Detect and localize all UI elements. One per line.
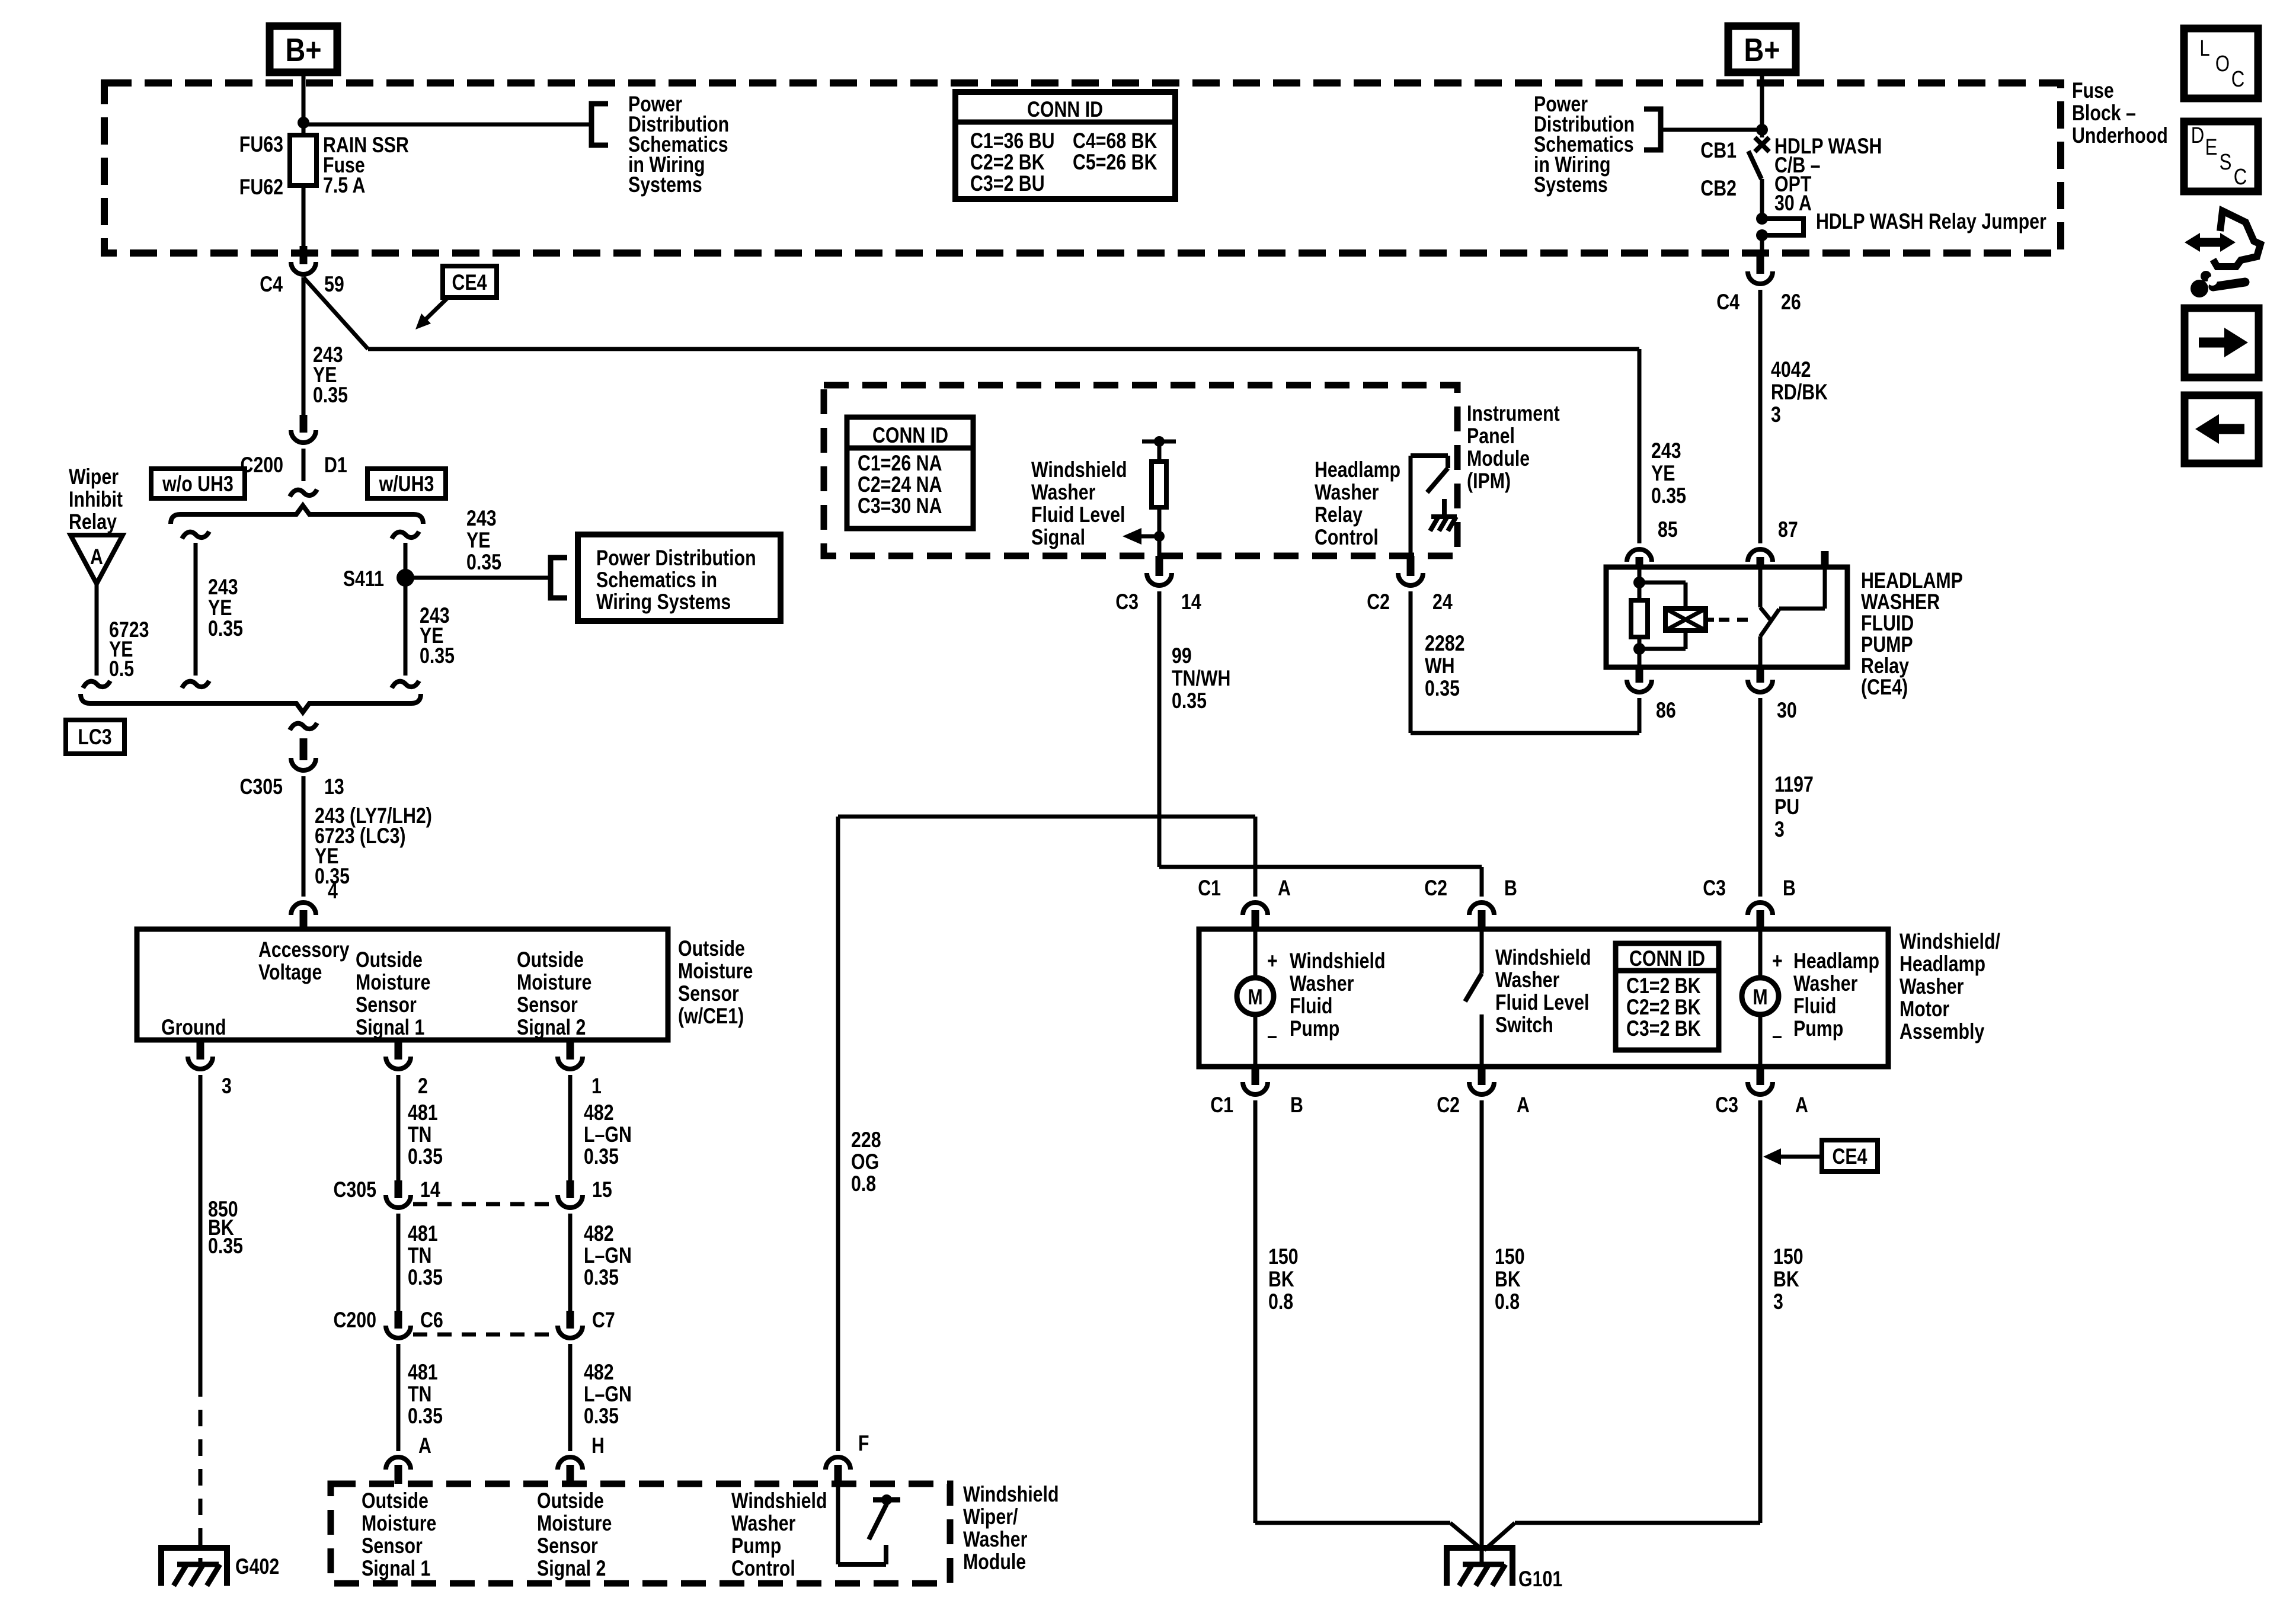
svg-text:7.5 A: 7.5 A xyxy=(323,173,365,198)
svg-text:Fluid Level: Fluid Level xyxy=(1031,502,1125,527)
svg-text:3: 3 xyxy=(1773,1289,1783,1314)
side icon back arrow box xyxy=(2185,395,2259,463)
svg-text:Relay: Relay xyxy=(1315,502,1363,527)
svg-text:Moisture: Moisture xyxy=(362,1511,436,1536)
svg-text:C1: C1 xyxy=(1210,1093,1233,1118)
svg-text:S: S xyxy=(2220,150,2232,175)
CE4 callout box with arrow (top left) xyxy=(443,266,497,297)
svg-text:14: 14 xyxy=(420,1177,440,1202)
svg-text:S411: S411 xyxy=(343,566,384,591)
svg-text:26: 26 xyxy=(1781,290,1801,315)
wire 850 BK from sensor ground xyxy=(199,1075,203,1380)
B+ power terminal box (left) xyxy=(270,26,337,72)
svg-text:A: A xyxy=(1278,876,1291,901)
svg-text:Moisture: Moisture xyxy=(517,970,591,995)
wire below C200 to option brace xyxy=(302,449,306,481)
power distribution schematics bracket symbol (S411) xyxy=(551,558,567,598)
svg-text:Motor: Motor xyxy=(1900,997,1949,1022)
svg-text:Wiring Systems: Wiring Systems xyxy=(596,590,731,614)
connector C200 cavity D1 xyxy=(300,415,308,433)
svg-text:Wiper: Wiper xyxy=(69,465,119,489)
wire from S411 to power distribution bracket xyxy=(405,576,550,580)
Outside Moisture Sensor box xyxy=(137,929,668,1040)
HEADLAMP WASHER FLUID PUMP Relay (CE4) box xyxy=(1606,567,1847,667)
connector C1 cavity A (windshield washer pump) xyxy=(1243,902,1268,915)
relay pin 85 connector xyxy=(1638,349,1642,543)
svg-text:Headlamp: Headlamp xyxy=(1315,457,1400,482)
wire 4042 RD/BK from C4-26 to relay 87 xyxy=(1758,290,1763,543)
wire 6723 YE from wiper inhibit relay down xyxy=(95,584,99,676)
svg-text:D1: D1 xyxy=(324,453,347,478)
relay pin 87 connector xyxy=(1748,549,1773,562)
svg-text:PU: PU xyxy=(1774,795,1799,820)
svg-text:482: 482 xyxy=(584,1360,614,1385)
wire 243 YE horizontal run to relay pin 85 xyxy=(368,347,1639,351)
svg-text:3: 3 xyxy=(222,1074,232,1099)
svg-text:Instrument: Instrument xyxy=(1467,401,1560,426)
svg-text:C2: C2 xyxy=(1437,1093,1460,1118)
svg-text:13: 13 xyxy=(324,774,344,799)
svg-text:L–GN: L–GN xyxy=(584,1382,632,1407)
svg-text:Washer: Washer xyxy=(1495,968,1559,993)
IPM relay control switch symbol xyxy=(1411,453,1448,458)
svg-text:C4: C4 xyxy=(1716,290,1739,315)
node junction on B+ feed (left) xyxy=(298,117,309,129)
svg-text:Moisture: Moisture xyxy=(356,970,430,995)
svg-text:C5=26 BK: C5=26 BK xyxy=(1073,150,1157,175)
connector C2 cavity 24 (IPM) xyxy=(1407,556,1415,576)
svg-text:A: A xyxy=(418,1433,431,1458)
svg-text:w/o UH3: w/o UH3 xyxy=(162,472,234,497)
relay coil winding with X xyxy=(1639,581,1686,585)
svg-text:Assembly: Assembly xyxy=(1900,1019,1984,1044)
svg-text:482: 482 xyxy=(584,1221,614,1246)
svg-text:TN: TN xyxy=(408,1382,431,1407)
svg-text:B: B xyxy=(1290,1093,1303,1118)
svg-text:0.8: 0.8 xyxy=(851,1172,876,1196)
svg-text:4042: 4042 xyxy=(1771,357,1811,382)
svg-text:Control: Control xyxy=(731,1556,795,1581)
svg-text:FU62: FU62 xyxy=(239,175,283,200)
svg-text:Underhood: Underhood xyxy=(2072,123,2168,148)
svg-text:Sensor: Sensor xyxy=(356,993,417,1017)
svg-text:Switch: Switch xyxy=(1495,1013,1553,1038)
splice S411 xyxy=(396,569,414,587)
svg-text:TN: TN xyxy=(408,1243,431,1268)
svg-text:C1: C1 xyxy=(1198,876,1221,901)
IPM fluid level sense resistor xyxy=(1142,440,1176,444)
svg-text:Module: Module xyxy=(1467,446,1530,471)
svg-text:C305: C305 xyxy=(333,1177,376,1202)
svg-text:2282: 2282 xyxy=(1425,631,1464,656)
wire 99 TN/WH from IPM C3-14 to fluid level switch xyxy=(1157,591,1162,867)
wire 243 YE diagonal from C4-59 to CE4 run xyxy=(303,277,368,349)
svg-text:C305: C305 xyxy=(239,774,283,799)
svg-text:0.8: 0.8 xyxy=(1268,1289,1293,1314)
svg-text:B: B xyxy=(1504,876,1517,901)
svg-text:CONN ID: CONN ID xyxy=(1629,946,1705,971)
connector C2 cavity A (below fluid level switch) xyxy=(1478,1067,1486,1085)
svg-text:+: + xyxy=(1772,949,1783,974)
svg-text:Schematics in: Schematics in xyxy=(596,568,717,593)
wire from left B+ down to fuse FU63 xyxy=(302,72,306,135)
svg-text:Windshield: Windshield xyxy=(1031,457,1127,482)
svg-text:Sensor: Sensor xyxy=(537,1534,598,1558)
svg-text:B+: B+ xyxy=(285,31,321,68)
connector C200 cavity C7 xyxy=(567,1311,574,1329)
svg-text:Washer: Washer xyxy=(1031,480,1095,505)
svg-text:481: 481 xyxy=(408,1221,438,1246)
CONN ID table (motor assembly) xyxy=(1616,943,1719,1050)
relay coil resistor branch xyxy=(1638,567,1642,600)
svg-text:TN/WH: TN/WH xyxy=(1172,666,1230,691)
svg-text:Washer: Washer xyxy=(1793,971,1857,996)
sensor pin 2 connector (signal 1) xyxy=(395,1040,402,1060)
svg-text:150: 150 xyxy=(1268,1244,1299,1269)
connector C2 cavity B (fluid level switch) xyxy=(1469,902,1494,915)
wire 482 L-GN segment 1 xyxy=(568,1075,573,1180)
svg-text:0.35: 0.35 xyxy=(466,550,501,575)
connector C4 cavity 26 xyxy=(1757,253,1764,274)
option squiggle below C200 xyxy=(290,489,317,497)
svg-text:C2: C2 xyxy=(1424,876,1447,901)
svg-text:WH: WH xyxy=(1425,654,1455,678)
node junction on B+ feed (right) xyxy=(1756,124,1768,136)
svg-text:(w/CE1): (w/CE1) xyxy=(678,1004,744,1029)
CE4 callout box with arrow (bottom right) xyxy=(1822,1140,1878,1172)
svg-text:C: C xyxy=(2231,67,2245,92)
svg-text:1: 1 xyxy=(591,1074,602,1099)
svg-text:Outside: Outside xyxy=(678,936,745,961)
svg-text:(CE4): (CE4) xyxy=(1861,675,1908,700)
option brace upper (w/o UH3 vs w/UH3 split) xyxy=(171,505,423,524)
sensor pin 3 connector (ground) xyxy=(197,1040,204,1060)
svg-text:C3=2 BK: C3=2 BK xyxy=(1626,1016,1701,1041)
wire 243 YE down from C4-59 to C200 xyxy=(302,277,306,415)
svg-text:A: A xyxy=(1795,1093,1808,1118)
svg-text:L–GN: L–GN xyxy=(584,1243,632,1268)
fuse FU63/FU62 RAIN SSR 7.5A xyxy=(290,135,316,185)
svg-text:Power Distribution: Power Distribution xyxy=(596,546,756,571)
svg-text:243: 243 xyxy=(466,506,497,531)
headlamp washer fluid pump motor xyxy=(1758,929,1763,978)
svg-text:99: 99 xyxy=(1172,644,1192,668)
connector C3 cavity A (below headlamp pump) xyxy=(1757,1067,1764,1085)
svg-text:C4: C4 xyxy=(260,272,283,297)
connector C200 cavity C6 xyxy=(395,1311,402,1329)
svg-text:Outside: Outside xyxy=(356,948,423,972)
svg-text:Outside: Outside xyxy=(537,1489,604,1513)
svg-text:CE4: CE4 xyxy=(452,270,487,295)
svg-text:Headlamp: Headlamp xyxy=(1793,949,1879,974)
side icon diagnostic wrench xyxy=(2196,238,2224,247)
svg-text:Fluid: Fluid xyxy=(1290,994,1332,1019)
Power Distribution Schematics in Wiring Systems box (S411) xyxy=(578,534,781,621)
svg-text:Washer: Washer xyxy=(731,1511,795,1536)
svg-text:Block –: Block – xyxy=(2072,101,2136,126)
svg-text:Windshield: Windshield xyxy=(963,1482,1059,1507)
connector C3 cavity 14 (IPM) xyxy=(1156,556,1163,576)
svg-text:M: M xyxy=(1248,985,1262,1010)
connector C3 cavity B (headlamp washer pump) xyxy=(1748,902,1773,915)
HDLP WASH relay jumper xyxy=(1756,213,1768,225)
svg-text:482: 482 xyxy=(584,1100,614,1125)
svg-text:–: – xyxy=(1267,1023,1277,1048)
svg-text:0.35: 0.35 xyxy=(208,616,243,641)
svg-text:+: + xyxy=(1267,949,1278,974)
Instrument Panel Module dashed box xyxy=(824,385,1457,556)
svg-text:150: 150 xyxy=(1773,1244,1803,1269)
CONN ID table (fuse block) xyxy=(955,92,1175,199)
relay coil to switch dashed link xyxy=(1706,618,1714,622)
svg-text:Signal 1: Signal 1 xyxy=(362,1556,430,1581)
wire junction to power distribution bracket (right) xyxy=(1661,128,1762,132)
svg-text:BK: BK xyxy=(1773,1267,1799,1292)
B+ power terminal box (right) xyxy=(1728,26,1796,72)
sensor pin 1 connector (signal 2) xyxy=(567,1040,574,1060)
relay switch contacts xyxy=(1758,567,1763,607)
svg-text:3: 3 xyxy=(1771,402,1781,427)
ground G402 xyxy=(161,1548,227,1586)
svg-text:Outside: Outside xyxy=(517,948,584,972)
svg-text:0.35: 0.35 xyxy=(1651,484,1686,508)
option brace lower (LC3 merge) xyxy=(81,694,421,712)
svg-text:L–GN: L–GN xyxy=(584,1122,632,1147)
option box LC3 xyxy=(66,720,124,754)
svg-text:A: A xyxy=(1517,1093,1530,1118)
svg-text:Voltage: Voltage xyxy=(258,960,322,985)
svg-text:Windshield: Windshield xyxy=(1290,949,1386,974)
svg-text:Windshield: Windshield xyxy=(731,1489,827,1513)
svg-text:Fuse: Fuse xyxy=(2072,78,2114,103)
wire 481 TN segment 3 xyxy=(396,1344,401,1451)
svg-text:Washer: Washer xyxy=(1900,974,1964,999)
Windshield Wiper/Washer Module dashed box xyxy=(331,1484,950,1583)
svg-text:Module: Module xyxy=(963,1550,1026,1574)
svg-text:Accessory: Accessory xyxy=(258,937,350,962)
wire from junction to power distribution bracket (left) xyxy=(303,123,591,127)
wire 243/6723 YE down to moisture sensor pin 4 xyxy=(302,776,306,897)
svg-text:0.35: 0.35 xyxy=(1425,676,1460,701)
dashed link C200 C6-C7 xyxy=(413,1333,556,1337)
svg-text:Control: Control xyxy=(1315,525,1379,550)
svg-text:Windshield/: Windshield/ xyxy=(1900,929,2000,954)
relay pin 86 connector xyxy=(1636,667,1643,683)
svg-text:CONN ID: CONN ID xyxy=(1027,97,1103,122)
svg-text:E: E xyxy=(2205,135,2218,160)
svg-text:Pump: Pump xyxy=(731,1534,781,1558)
wire 482 L-GN segment 2 xyxy=(568,1214,573,1311)
svg-text:150: 150 xyxy=(1495,1244,1525,1269)
svg-text:Outside: Outside xyxy=(362,1489,428,1513)
svg-text:BK: BK xyxy=(1268,1267,1294,1292)
svg-text:86: 86 xyxy=(1656,698,1676,723)
svg-text:24: 24 xyxy=(1432,590,1453,614)
circuit breaker HDLP WASH CB1/CB2 xyxy=(1755,137,1769,152)
connector C1 cavity B (below washer pump) xyxy=(1252,1067,1259,1085)
svg-text:Ground: Ground xyxy=(161,1015,226,1040)
svg-text:Pump: Pump xyxy=(1290,1016,1339,1041)
svg-text:2: 2 xyxy=(418,1074,428,1099)
power distribution schematics bracket symbol (left) xyxy=(591,104,608,145)
svg-text:D: D xyxy=(2191,123,2205,148)
svg-text:G402: G402 xyxy=(235,1554,279,1579)
svg-text:TN: TN xyxy=(408,1122,431,1147)
svg-text:Systems: Systems xyxy=(628,172,702,197)
connector C4 cavity 59 (fuse block output) xyxy=(300,246,308,264)
svg-text:LC3: LC3 xyxy=(78,725,111,750)
wire 481 TN segment 2 xyxy=(396,1214,401,1311)
svg-text:0.5: 0.5 xyxy=(109,657,134,681)
svg-text:(IPM): (IPM) xyxy=(1467,469,1511,494)
wire 150 BK from C3-A to G101 xyxy=(1758,1100,1763,1523)
wire 150 BK from C2-A to G101 xyxy=(1480,1100,1484,1564)
dashed link C305 14-15 xyxy=(413,1202,556,1206)
connector pin F into wiper/washer module xyxy=(826,1457,850,1470)
svg-text:Pump: Pump xyxy=(1793,1016,1843,1041)
svg-text:B: B xyxy=(1783,876,1796,901)
windshield washer pump control switch inside module xyxy=(836,1484,840,1564)
svg-text:YE: YE xyxy=(466,528,490,553)
svg-text:Moisture: Moisture xyxy=(537,1511,612,1536)
svg-text:481: 481 xyxy=(408,1360,438,1385)
svg-text:Signal 2: Signal 2 xyxy=(517,1015,586,1040)
svg-text:30 A: 30 A xyxy=(1774,191,1812,216)
wire 228 OG from module F up and over to washer pump C1 xyxy=(836,817,840,1451)
svg-text:85: 85 xyxy=(1658,517,1678,542)
side icon forward arrow box xyxy=(2185,308,2259,377)
wiper inhibit relay triangle symbol A xyxy=(71,535,123,584)
wire 1197 PU from relay 30 to headlamp washer pump xyxy=(1758,698,1763,897)
svg-text:C3=30 NA: C3=30 NA xyxy=(858,494,942,518)
svg-text:4: 4 xyxy=(328,879,338,904)
svg-text:C3: C3 xyxy=(1715,1093,1738,1118)
relay pin 30 connector xyxy=(1757,667,1764,683)
svg-text:CONN ID: CONN ID xyxy=(872,423,948,448)
svg-text:B+: B+ xyxy=(1744,31,1780,68)
svg-text:H: H xyxy=(591,1433,605,1458)
svg-text:Sensor: Sensor xyxy=(517,993,578,1017)
wire 481 TN segment 1 xyxy=(396,1075,401,1180)
svg-text:A: A xyxy=(90,545,103,569)
svg-text:228: 228 xyxy=(851,1128,881,1153)
connector pin H into wiper/washer module xyxy=(558,1457,583,1470)
connector C305 cavity 14 xyxy=(395,1180,402,1198)
svg-text:0.35: 0.35 xyxy=(313,383,348,408)
svg-text:Systems: Systems xyxy=(1534,172,1608,197)
svg-text:0.35: 0.35 xyxy=(408,1144,443,1169)
ground G101 xyxy=(1447,1548,1512,1586)
svg-text:CB2: CB2 xyxy=(1700,176,1737,201)
svg-text:14: 14 xyxy=(1181,590,1201,614)
CONN ID table (IPM) xyxy=(847,417,973,529)
windshield washer fluid level switch symbol xyxy=(1480,929,1484,974)
svg-text:Signal 1: Signal 1 xyxy=(356,1015,424,1040)
svg-text:Washer: Washer xyxy=(1315,480,1379,505)
svg-text:Fluid Level: Fluid Level xyxy=(1495,990,1589,1015)
svg-text:Panel: Panel xyxy=(1467,424,1515,449)
svg-text:Washer: Washer xyxy=(963,1527,1027,1552)
option squiggle below lower brace xyxy=(290,723,317,730)
svg-text:C7: C7 xyxy=(592,1308,615,1333)
connector pin A into wiper/washer module xyxy=(386,1457,411,1470)
side icon DESC box xyxy=(2184,121,2258,191)
connector C305 cavity 13 xyxy=(300,738,308,760)
svg-text:G101: G101 xyxy=(1518,1567,1562,1592)
wire relay 86 down to control run xyxy=(1638,698,1642,733)
svg-text:0.35: 0.35 xyxy=(584,1144,619,1169)
wire 243 YE down to relay 85 xyxy=(1638,349,1642,543)
svg-text:BK: BK xyxy=(1495,1267,1521,1292)
svg-text:F: F xyxy=(858,1431,869,1456)
IPM signal arrow and node xyxy=(1154,531,1165,542)
option box w/o UH3 xyxy=(151,469,245,498)
svg-text:1197: 1197 xyxy=(1774,772,1814,797)
svg-text:Moisture: Moisture xyxy=(678,959,753,984)
svg-text:O: O xyxy=(2215,52,2230,76)
svg-text:Fluid: Fluid xyxy=(1793,994,1836,1019)
IPM internal chassis ground xyxy=(1442,499,1447,517)
svg-text:30: 30 xyxy=(1777,698,1797,723)
svg-text:CB1: CB1 xyxy=(1700,138,1737,163)
svg-text:Wiper/: Wiper/ xyxy=(963,1505,1018,1529)
Fuse Block - Underhood dashed outline box xyxy=(104,83,2061,253)
svg-text:Windshield: Windshield xyxy=(1495,945,1591,970)
svg-text:0.35: 0.35 xyxy=(408,1265,443,1290)
svg-text:0.35: 0.35 xyxy=(420,644,455,668)
side icon LOC box xyxy=(2184,28,2258,98)
svg-text:243: 243 xyxy=(1651,438,1681,463)
wire 482 L-GN segment 3 xyxy=(568,1344,573,1451)
svg-text:FU63: FU63 xyxy=(239,132,283,157)
svg-text:Inhibit: Inhibit xyxy=(69,487,123,512)
svg-text:3: 3 xyxy=(1774,817,1785,842)
left branch wire 243 YE (w/o UH3) xyxy=(182,532,209,539)
svg-text:Signal: Signal xyxy=(1031,525,1085,550)
svg-text:0.35: 0.35 xyxy=(1172,689,1207,713)
connector C305 cavity 15 xyxy=(567,1180,574,1198)
svg-text:C200: C200 xyxy=(333,1308,376,1333)
svg-text:0.8: 0.8 xyxy=(1495,1289,1520,1314)
connector pin 4 into moisture sensor xyxy=(291,902,316,915)
svg-text:L: L xyxy=(2199,36,2209,61)
svg-text:C3: C3 xyxy=(1115,590,1139,614)
svg-text:–: – xyxy=(1772,1023,1782,1048)
svg-text:Sensor: Sensor xyxy=(362,1534,423,1558)
svg-text:C3=2 BU: C3=2 BU xyxy=(970,171,1045,196)
svg-text:C3: C3 xyxy=(1703,876,1726,901)
svg-text:481: 481 xyxy=(408,1100,438,1125)
svg-text:CE4: CE4 xyxy=(1832,1144,1867,1169)
svg-text:0.35: 0.35 xyxy=(584,1265,619,1290)
svg-text:0.35: 0.35 xyxy=(584,1404,619,1429)
svg-text:59: 59 xyxy=(324,272,344,297)
power distribution schematics bracket symbol (right) xyxy=(1644,109,1661,150)
windshield washer fluid pump motor xyxy=(1253,929,1258,978)
svg-text:M: M xyxy=(1753,985,1767,1010)
svg-text:Relay: Relay xyxy=(69,510,117,534)
option box w/UH3 xyxy=(367,469,446,498)
svg-text:Headlamp: Headlamp xyxy=(1900,952,1985,977)
svg-text:Washer: Washer xyxy=(1290,971,1354,996)
svg-text:OG: OG xyxy=(851,1150,879,1174)
svg-text:w/UH3: w/UH3 xyxy=(379,472,434,497)
svg-text:RD/BK: RD/BK xyxy=(1771,380,1828,405)
svg-text:15: 15 xyxy=(592,1177,612,1202)
svg-text:C2: C2 xyxy=(1367,590,1390,614)
svg-text:Sensor: Sensor xyxy=(678,981,739,1006)
svg-text:87: 87 xyxy=(1778,517,1798,542)
